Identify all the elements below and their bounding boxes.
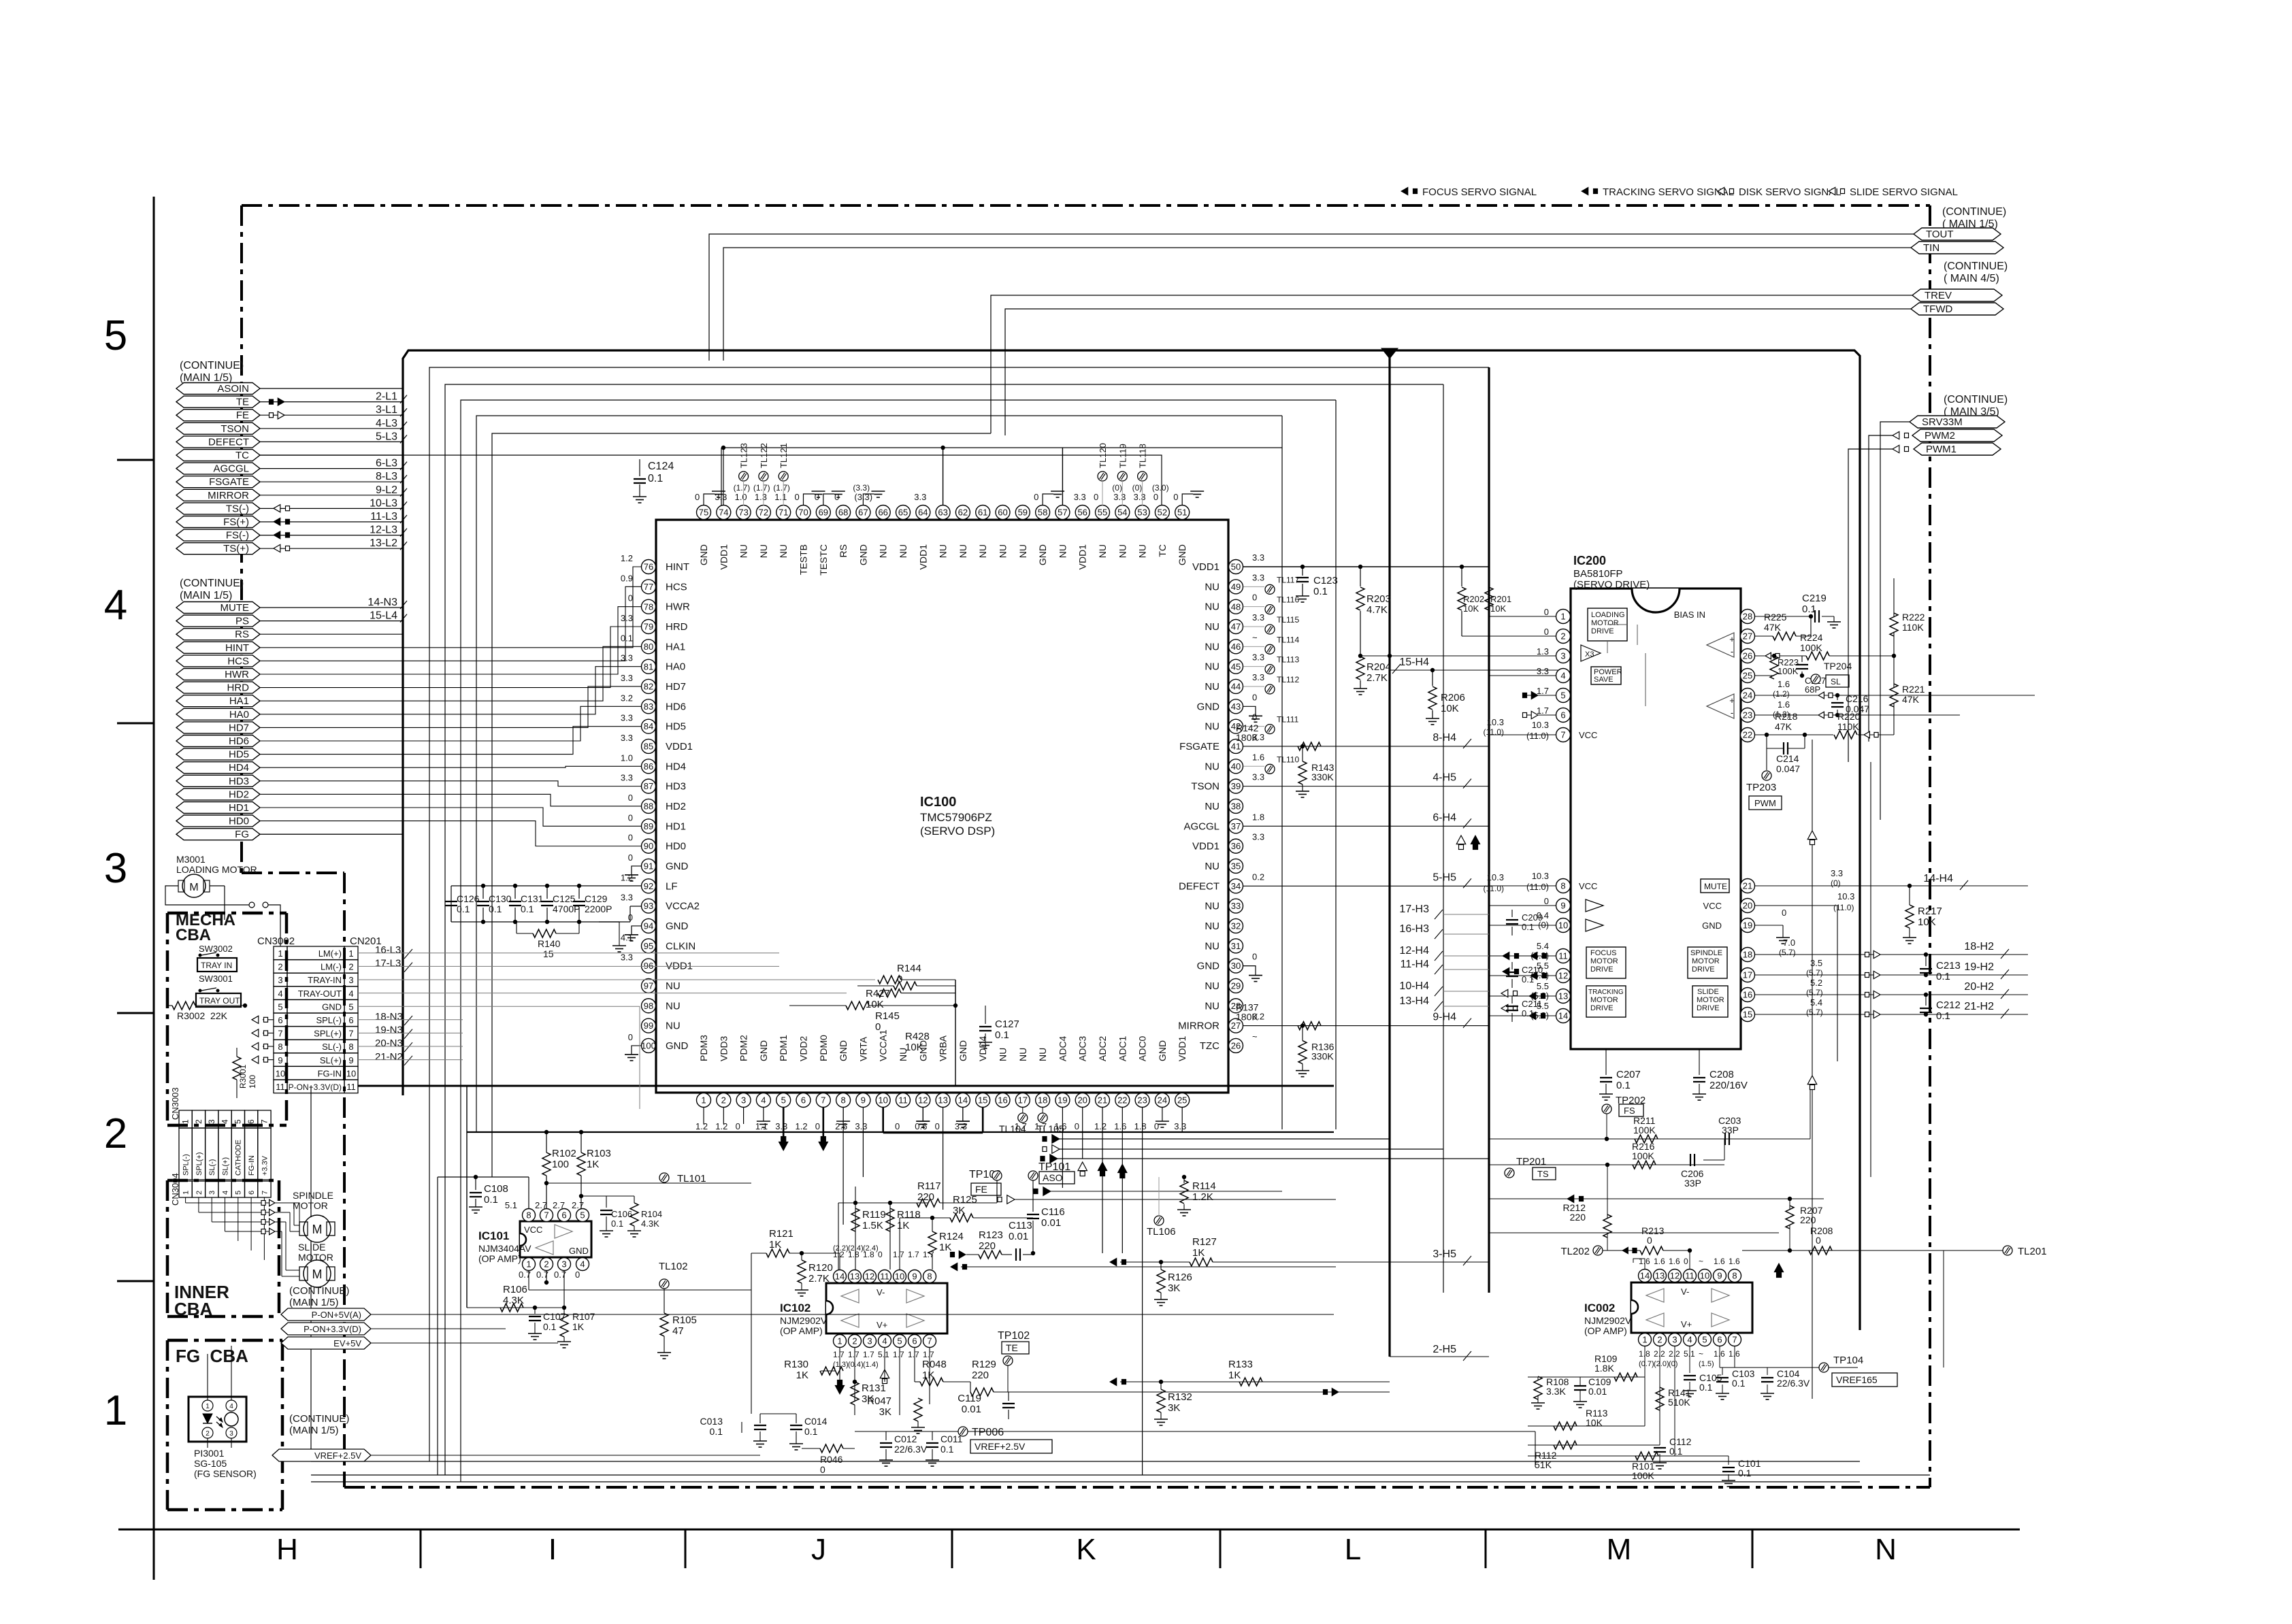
svg-text:1.7: 1.7 xyxy=(893,1350,904,1359)
svg-text:330K: 330K xyxy=(1311,772,1334,782)
svg-text:R140: R140 xyxy=(538,938,561,949)
svg-text:TL111: TL111 xyxy=(1277,715,1299,725)
svg-text:N: N xyxy=(1875,1533,1897,1566)
svg-text:IC002: IC002 xyxy=(1584,1302,1615,1314)
svg-text:TRAY OUT: TRAY OUT xyxy=(199,996,240,1006)
svg-text:NU: NU xyxy=(878,544,889,558)
svg-text:R124: R124 xyxy=(939,1231,964,1242)
svg-text:0: 0 xyxy=(1647,1235,1652,1246)
svg-text:HINT: HINT xyxy=(225,642,249,654)
svg-text:SLIDE: SLIDE xyxy=(1697,988,1719,996)
svg-text:2: 2 xyxy=(1560,631,1565,642)
svg-text:FOCUS: FOCUS xyxy=(1590,949,1617,957)
svg-text:R204: R204 xyxy=(1366,661,1391,673)
svg-text:TFWD: TFWD xyxy=(1923,303,1952,315)
svg-text:3.3: 3.3 xyxy=(1252,672,1264,682)
svg-text:3.3: 3.3 xyxy=(1252,652,1264,663)
svg-text:LOADING: LOADING xyxy=(1591,611,1625,619)
svg-text:0.1: 0.1 xyxy=(484,1194,498,1206)
svg-text:SL(-): SL(-) xyxy=(322,1042,342,1052)
svg-text:2-L1: 2-L1 xyxy=(376,391,397,403)
svg-text:53: 53 xyxy=(1137,508,1147,518)
svg-text:NU: NU xyxy=(1205,861,1219,872)
svg-text:R222: R222 xyxy=(1902,612,1925,623)
svg-text:SAVE: SAVE xyxy=(1594,676,1614,684)
svg-text:4.3K: 4.3K xyxy=(641,1219,659,1229)
svg-text:R131: R131 xyxy=(862,1382,886,1394)
svg-text:0.1: 0.1 xyxy=(611,1219,623,1229)
svg-text:10K: 10K xyxy=(1463,603,1479,614)
svg-text:0.01: 0.01 xyxy=(1041,1217,1061,1229)
svg-text:MOTOR: MOTOR xyxy=(1591,619,1619,627)
svg-text:(MAIN 1/5): (MAIN 1/5) xyxy=(180,590,232,601)
svg-text:TL201: TL201 xyxy=(2018,1246,2047,1257)
svg-text:4: 4 xyxy=(761,1095,766,1106)
svg-text:2.7: 2.7 xyxy=(572,1200,584,1210)
svg-text:J: J xyxy=(811,1533,826,1566)
svg-text:V+: V+ xyxy=(877,1320,887,1330)
svg-text:20-N3: 20-N3 xyxy=(375,1038,403,1049)
svg-text:3K: 3K xyxy=(1168,1282,1180,1294)
svg-text:R133: R133 xyxy=(1228,1359,1253,1370)
svg-text:TOUT: TOUT xyxy=(1926,229,1954,240)
svg-text:7: 7 xyxy=(821,1095,825,1106)
svg-text:PDM0: PDM0 xyxy=(818,1035,829,1061)
svg-text:H: H xyxy=(276,1533,298,1566)
svg-text:GND: GND xyxy=(666,921,689,932)
svg-text:C213: C213 xyxy=(1936,960,1961,972)
svg-text:SG-105: SG-105 xyxy=(194,1458,227,1469)
svg-text:TL122: TL122 xyxy=(759,443,769,468)
svg-text:0: 0 xyxy=(1252,692,1257,702)
svg-text:R121: R121 xyxy=(769,1228,793,1240)
svg-text:TZC: TZC xyxy=(1200,1040,1219,1052)
svg-text:6: 6 xyxy=(1717,1335,1722,1345)
svg-text:6: 6 xyxy=(246,1119,256,1124)
svg-text:4.7K: 4.7K xyxy=(1366,604,1388,616)
svg-text:M: M xyxy=(312,1223,323,1236)
svg-text:180K: 180K xyxy=(1236,732,1258,743)
svg-text:11-L3: 11-L3 xyxy=(370,511,397,523)
svg-text:VDD1: VDD1 xyxy=(1192,561,1219,573)
svg-text:NU: NU xyxy=(1205,1000,1219,1012)
svg-text:0.1: 0.1 xyxy=(1732,1378,1746,1389)
svg-text:2.7: 2.7 xyxy=(535,1200,547,1210)
svg-text:9: 9 xyxy=(278,1055,282,1065)
svg-text:C214: C214 xyxy=(1776,753,1799,764)
svg-text:85: 85 xyxy=(644,742,653,752)
svg-text:0.6: 0.6 xyxy=(915,1121,927,1131)
svg-text:-: - xyxy=(1731,646,1733,657)
svg-text:47K: 47K xyxy=(1775,721,1792,732)
svg-text:3.3: 3.3 xyxy=(621,653,633,663)
svg-text:4: 4 xyxy=(882,1336,887,1346)
svg-text:C108: C108 xyxy=(484,1183,508,1195)
svg-text:ASO: ASO xyxy=(1043,1172,1063,1183)
svg-text:0: 0 xyxy=(875,1021,881,1033)
svg-text:DRIVE: DRIVE xyxy=(1697,1004,1720,1012)
svg-text:46: 46 xyxy=(1231,642,1241,652)
svg-text:TSON: TSON xyxy=(1191,781,1219,793)
svg-text:R225: R225 xyxy=(1764,612,1787,623)
svg-text:(CONTINUE): (CONTINUE) xyxy=(1944,394,2008,405)
svg-text:4: 4 xyxy=(1560,671,1565,681)
svg-text:100K: 100K xyxy=(1632,1150,1654,1161)
svg-text:21: 21 xyxy=(1743,881,1752,891)
svg-text:BA5810FP: BA5810FP xyxy=(1573,568,1623,580)
svg-text:7: 7 xyxy=(278,1029,282,1039)
svg-text:HD4: HD4 xyxy=(229,762,249,774)
svg-text:94: 94 xyxy=(644,921,653,931)
svg-text:3: 3 xyxy=(1560,651,1565,661)
svg-text:10.3: 10.3 xyxy=(1487,872,1504,882)
svg-text:1.7: 1.7 xyxy=(893,1250,904,1259)
svg-text:3: 3 xyxy=(229,1430,233,1438)
svg-text:PWM1: PWM1 xyxy=(1926,444,1957,455)
svg-text:50: 50 xyxy=(1231,562,1241,572)
svg-text:SL(-): SL(-) xyxy=(208,1159,216,1176)
svg-text:0.01: 0.01 xyxy=(1009,1231,1028,1242)
svg-text:TIN: TIN xyxy=(1923,242,1939,254)
svg-text:TESTB: TESTB xyxy=(798,544,809,575)
svg-text:5.1: 5.1 xyxy=(505,1200,517,1210)
svg-text:R218: R218 xyxy=(1775,711,1798,722)
svg-text:NJM2902V: NJM2902V xyxy=(1584,1315,1632,1326)
svg-text:LM(+): LM(+) xyxy=(318,948,342,959)
svg-text:3.3: 3.3 xyxy=(1113,492,1126,502)
svg-text:31: 31 xyxy=(1231,941,1241,951)
svg-text:10K: 10K xyxy=(905,1042,923,1053)
svg-text:1.8K: 1.8K xyxy=(1594,1363,1614,1374)
svg-text:R105: R105 xyxy=(672,1314,697,1326)
svg-text:ADC0: ADC0 xyxy=(1137,1035,1148,1061)
svg-text:0.1: 0.1 xyxy=(1313,586,1328,597)
svg-text:R428: R428 xyxy=(905,1031,930,1042)
svg-text:3: 3 xyxy=(741,1095,746,1106)
svg-text:86: 86 xyxy=(644,761,653,772)
svg-text:12-L3: 12-L3 xyxy=(370,525,397,536)
svg-text:C209: C209 xyxy=(1522,912,1543,923)
svg-text:(1.5): (1.5) xyxy=(1699,1360,1714,1368)
svg-text:R048: R048 xyxy=(922,1359,947,1370)
svg-text:0: 0 xyxy=(1094,492,1098,502)
svg-text:R117: R117 xyxy=(917,1180,941,1192)
svg-text:97: 97 xyxy=(644,981,653,991)
svg-text:73: 73 xyxy=(738,508,748,518)
svg-text:VCC: VCC xyxy=(1579,881,1597,891)
svg-text:10-H4: 10-H4 xyxy=(1399,980,1429,992)
svg-text:18: 18 xyxy=(1743,950,1752,960)
svg-text:(2.2): (2.2) xyxy=(833,1244,849,1253)
svg-text:7: 7 xyxy=(544,1210,549,1221)
svg-text:TL118: TL118 xyxy=(1138,444,1148,468)
svg-text:0: 0 xyxy=(575,1270,580,1280)
svg-text:0.1: 0.1 xyxy=(1522,974,1534,984)
svg-text:R132: R132 xyxy=(1168,1391,1192,1403)
svg-text:1K: 1K xyxy=(922,1370,934,1381)
svg-text:CATHODE: CATHODE xyxy=(235,1140,243,1176)
svg-text:72: 72 xyxy=(759,508,768,518)
svg-text:25: 25 xyxy=(1743,671,1752,681)
svg-text:0: 0 xyxy=(1153,492,1158,502)
svg-text:0.1: 0.1 xyxy=(489,904,502,914)
svg-text:(1.7): (1.7) xyxy=(753,483,770,493)
svg-text:1.3: 1.3 xyxy=(755,492,767,502)
svg-text:0.1: 0.1 xyxy=(648,473,663,484)
svg-text:6: 6 xyxy=(348,1015,353,1025)
svg-text:12: 12 xyxy=(1670,1271,1680,1281)
svg-text:C106: C106 xyxy=(611,1209,632,1219)
svg-text:2: 2 xyxy=(721,1095,726,1106)
svg-text:DEFECT: DEFECT xyxy=(1179,880,1219,892)
svg-text:6: 6 xyxy=(801,1095,806,1106)
svg-text:1.2: 1.2 xyxy=(1094,1121,1107,1131)
svg-text:NU: NU xyxy=(1137,544,1148,558)
svg-text:TS(-): TS(-) xyxy=(226,503,249,514)
svg-text:C127: C127 xyxy=(995,1018,1019,1030)
svg-text:74: 74 xyxy=(719,508,728,518)
svg-text:18-H2: 18-H2 xyxy=(1964,941,1994,952)
svg-text:4-L3: 4-L3 xyxy=(376,418,397,429)
svg-text:NU: NU xyxy=(977,544,988,558)
svg-text:32: 32 xyxy=(1231,921,1241,931)
svg-text:13: 13 xyxy=(938,1095,947,1106)
svg-text:3-H5: 3-H5 xyxy=(1432,1248,1456,1260)
svg-text:220: 220 xyxy=(1800,1214,1816,1225)
svg-text:1.1: 1.1 xyxy=(774,492,787,502)
svg-text:1.7: 1.7 xyxy=(1537,706,1549,716)
svg-text:0: 0 xyxy=(820,1464,825,1475)
svg-text:16-H3: 16-H3 xyxy=(1399,923,1429,935)
svg-text:(SERVO DSP): (SERVO DSP) xyxy=(920,825,995,838)
svg-text:TL112: TL112 xyxy=(1277,675,1299,684)
svg-text:MUTE: MUTE xyxy=(1704,882,1727,891)
svg-text:110K: 110K xyxy=(1902,622,1924,633)
svg-text:0: 0 xyxy=(1544,627,1549,637)
svg-text:64: 64 xyxy=(918,508,928,518)
svg-text:22/6.3V: 22/6.3V xyxy=(894,1444,928,1455)
svg-text:LF: LF xyxy=(666,880,678,892)
svg-text:7: 7 xyxy=(1560,730,1565,740)
svg-text:TRACKING SERVO SIGNAL: TRACKING SERVO SIGNAL xyxy=(1603,186,1734,198)
svg-text:TESTC: TESTC xyxy=(818,544,829,576)
svg-text:(2.4): (2.4) xyxy=(863,1244,879,1253)
svg-text:TL101: TL101 xyxy=(677,1173,706,1184)
svg-text:78: 78 xyxy=(644,601,653,612)
svg-text:10K: 10K xyxy=(1490,603,1506,614)
svg-text:FS: FS xyxy=(1624,1106,1635,1116)
svg-text:3.3: 3.3 xyxy=(621,952,633,963)
svg-text:MOTOR: MOTOR xyxy=(1590,996,1618,1004)
svg-text:1.2: 1.2 xyxy=(695,1121,708,1131)
svg-text:NU: NU xyxy=(998,1048,1009,1061)
svg-text:1.2K: 1.2K xyxy=(1192,1191,1213,1203)
svg-text:1: 1 xyxy=(1642,1335,1647,1345)
svg-text:17: 17 xyxy=(1018,1095,1028,1106)
svg-text:SPINDLE: SPINDLE xyxy=(1690,949,1722,957)
svg-text:69: 69 xyxy=(819,508,828,518)
svg-text:3: 3 xyxy=(1672,1335,1677,1345)
svg-text:TP102: TP102 xyxy=(998,1330,1030,1342)
svg-text:11: 11 xyxy=(1558,951,1568,961)
svg-text:100: 100 xyxy=(552,1159,569,1170)
svg-text:3: 3 xyxy=(561,1259,566,1270)
svg-text:HD3: HD3 xyxy=(229,776,249,787)
svg-text:(MAIN 1/5): (MAIN 1/5) xyxy=(180,372,232,384)
svg-text:PI3001: PI3001 xyxy=(194,1448,225,1459)
svg-text:(OP AMP): (OP AMP) xyxy=(478,1253,521,1264)
svg-text:ASOIN: ASOIN xyxy=(217,383,249,395)
svg-text:8: 8 xyxy=(278,1042,282,1052)
svg-text:92: 92 xyxy=(644,881,653,891)
svg-text:1K: 1K xyxy=(1192,1247,1205,1259)
svg-text:TP006: TP006 xyxy=(972,1427,1004,1438)
svg-text:NU: NU xyxy=(1205,641,1219,652)
svg-text:11: 11 xyxy=(276,1082,285,1092)
svg-text:TL106: TL106 xyxy=(1147,1226,1176,1238)
svg-text:MOTOR: MOTOR xyxy=(1692,957,1720,965)
svg-text:CN3002: CN3002 xyxy=(257,935,295,947)
svg-text:GND: GND xyxy=(1037,544,1048,565)
svg-text:3.3: 3.3 xyxy=(621,893,633,903)
svg-text:GND: GND xyxy=(838,1040,849,1061)
svg-text:8: 8 xyxy=(348,1042,353,1052)
svg-text:L: L xyxy=(1345,1533,1361,1566)
svg-text:1.2: 1.2 xyxy=(621,553,633,563)
svg-text:0: 0 xyxy=(1544,607,1549,617)
svg-text:HA1: HA1 xyxy=(666,641,685,652)
svg-text:MUTE: MUTE xyxy=(220,602,250,614)
svg-text:21-N2: 21-N2 xyxy=(375,1051,403,1063)
svg-text:0.9: 0.9 xyxy=(621,573,633,583)
svg-text:2: 2 xyxy=(348,962,353,972)
svg-text:0: 0 xyxy=(1034,492,1038,502)
svg-text:GND: GND xyxy=(857,544,868,565)
svg-text:CLKIN: CLKIN xyxy=(666,940,695,952)
svg-text:0.2: 0.2 xyxy=(1252,872,1264,882)
svg-text:10: 10 xyxy=(1700,1271,1709,1281)
svg-text:7: 7 xyxy=(1732,1335,1737,1345)
svg-text:83: 83 xyxy=(644,701,653,712)
svg-text:NU: NU xyxy=(1017,1048,1028,1061)
svg-text:NU: NU xyxy=(666,1000,681,1012)
svg-text:93: 93 xyxy=(644,901,653,911)
svg-text:R120: R120 xyxy=(808,1262,833,1274)
svg-text:1K: 1K xyxy=(796,1370,808,1381)
svg-text:(5.7): (5.7) xyxy=(1806,1008,1823,1017)
svg-text:510K: 510K xyxy=(1668,1397,1690,1408)
svg-text:79: 79 xyxy=(644,622,653,632)
svg-text:1K: 1K xyxy=(939,1242,951,1253)
svg-text:FG CBA: FG CBA xyxy=(176,1346,248,1366)
svg-text:SLIDE: SLIDE xyxy=(298,1242,325,1253)
svg-text:39: 39 xyxy=(1231,781,1241,791)
svg-text:(3.0): (3.0) xyxy=(1152,483,1169,493)
svg-text:TP203: TP203 xyxy=(1746,782,1776,793)
svg-text:NU: NU xyxy=(666,980,681,992)
svg-text:1.6: 1.6 xyxy=(1114,1121,1126,1131)
svg-text:NU: NU xyxy=(1205,721,1219,733)
svg-text:4: 4 xyxy=(348,989,353,999)
svg-text:V+: V+ xyxy=(1681,1319,1692,1329)
svg-text:5: 5 xyxy=(781,1095,786,1106)
svg-text:C116: C116 xyxy=(1041,1206,1065,1218)
svg-text:NU: NU xyxy=(1057,544,1068,558)
svg-text:3K: 3K xyxy=(879,1406,891,1418)
svg-text:8-L3: 8-L3 xyxy=(376,471,397,482)
svg-text:0: 0 xyxy=(628,593,633,603)
svg-text:5: 5 xyxy=(897,1336,902,1346)
svg-text:R106: R106 xyxy=(503,1284,527,1295)
svg-text:(0.7): (0.7) xyxy=(1639,1360,1654,1368)
svg-text:C113: C113 xyxy=(1009,1220,1032,1231)
svg-text:23: 23 xyxy=(1743,710,1752,720)
svg-text:0: 0 xyxy=(1154,1121,1159,1131)
svg-text:(OP AMP): (OP AMP) xyxy=(780,1325,823,1336)
svg-text:TSON: TSON xyxy=(220,423,249,435)
svg-text:RS: RS xyxy=(235,629,249,640)
svg-text:HD0: HD0 xyxy=(229,816,249,827)
svg-text:M: M xyxy=(1607,1533,1632,1566)
svg-text:MIRROR: MIRROR xyxy=(208,490,249,501)
svg-text:C131: C131 xyxy=(521,893,544,904)
svg-text:37: 37 xyxy=(1231,821,1241,831)
svg-text:3.3K: 3.3K xyxy=(1546,1386,1566,1397)
svg-text:62: 62 xyxy=(958,508,968,518)
svg-text:GND: GND xyxy=(569,1246,589,1256)
svg-text:1.0: 1.0 xyxy=(621,752,633,763)
svg-text:X3: X3 xyxy=(1585,650,1594,659)
svg-text:3.3: 3.3 xyxy=(1134,492,1146,502)
svg-text:67: 67 xyxy=(858,508,868,518)
svg-text:33: 33 xyxy=(1231,901,1241,911)
svg-text:5-L3: 5-L3 xyxy=(376,431,397,442)
svg-text:51K: 51K xyxy=(1535,1459,1552,1470)
svg-text:1K: 1K xyxy=(572,1321,585,1332)
svg-text:0: 0 xyxy=(1252,952,1257,962)
svg-text:TMC57906PZ: TMC57906PZ xyxy=(920,811,992,824)
svg-text:ADC1: ADC1 xyxy=(1117,1035,1128,1061)
svg-text:R129: R129 xyxy=(972,1359,996,1370)
svg-text:HWR: HWR xyxy=(225,669,249,680)
svg-text:(OP AMP): (OP AMP) xyxy=(1584,1325,1627,1336)
svg-text:TL114: TL114 xyxy=(1277,635,1299,644)
svg-text:0: 0 xyxy=(736,1121,740,1131)
svg-text:61: 61 xyxy=(978,508,987,518)
svg-text:14: 14 xyxy=(1640,1271,1650,1281)
svg-text:2: 2 xyxy=(195,1191,203,1195)
svg-text:1.3: 1.3 xyxy=(1537,646,1549,657)
svg-text:10: 10 xyxy=(878,1095,887,1106)
svg-text:CBA: CBA xyxy=(174,1299,213,1319)
svg-text:R118: R118 xyxy=(897,1209,921,1221)
svg-text:0: 0 xyxy=(1684,1257,1688,1266)
svg-text:TL121: TL121 xyxy=(779,443,789,468)
svg-text:DISK SERVO SIGNAL: DISK SERVO SIGNAL xyxy=(1739,186,1841,198)
svg-text:3.2: 3.2 xyxy=(621,693,633,703)
svg-text:~: ~ xyxy=(1699,1349,1703,1359)
svg-text:2: 2 xyxy=(104,1110,127,1157)
svg-text:R220: R220 xyxy=(1837,711,1861,722)
svg-text:P-ON+5V(A): P-ON+5V(A) xyxy=(312,1310,361,1320)
svg-text:TL115: TL115 xyxy=(1277,615,1299,625)
svg-text:HD6: HD6 xyxy=(666,701,686,712)
svg-text:7: 7 xyxy=(259,1119,269,1124)
svg-text:(MAIN 1/5): (MAIN 1/5) xyxy=(289,1297,339,1308)
svg-text:HA1: HA1 xyxy=(229,695,249,707)
svg-text:IC100: IC100 xyxy=(920,795,956,810)
svg-text:LM(-): LM(-) xyxy=(321,962,342,972)
